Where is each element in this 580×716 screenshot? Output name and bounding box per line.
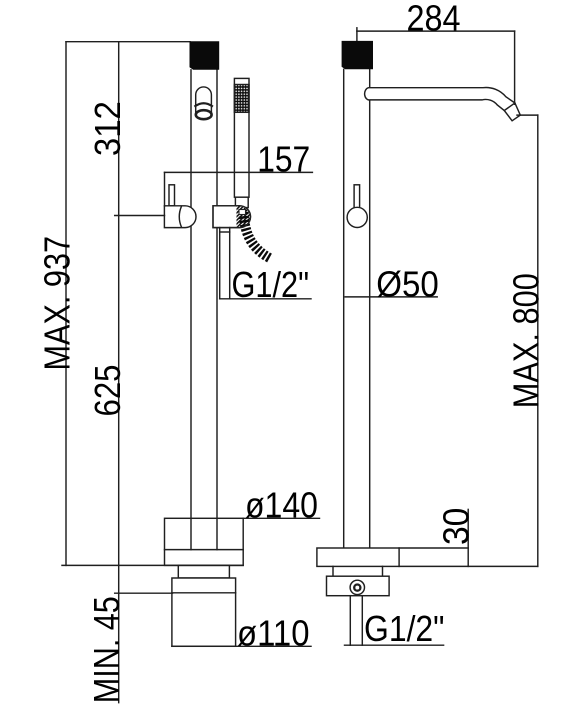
svg-text:MAX. 800: MAX. 800 [505, 273, 546, 408]
svg-text:ø140: ø140 [245, 485, 318, 526]
svg-text:30: 30 [436, 508, 477, 546]
svg-text:G1/2": G1/2" [232, 264, 310, 305]
svg-text:MIN. 45: MIN. 45 [86, 596, 127, 703]
svg-text:ø110: ø110 [237, 612, 310, 653]
svg-text:312: 312 [87, 101, 128, 156]
svg-text:284: 284 [407, 0, 461, 39]
svg-text:157: 157 [257, 139, 310, 180]
svg-text:625: 625 [87, 365, 128, 417]
svg-text:Ø50: Ø50 [376, 263, 439, 304]
svg-text:MAX. 937: MAX. 937 [36, 236, 77, 371]
svg-text:G1/2": G1/2" [364, 608, 445, 649]
